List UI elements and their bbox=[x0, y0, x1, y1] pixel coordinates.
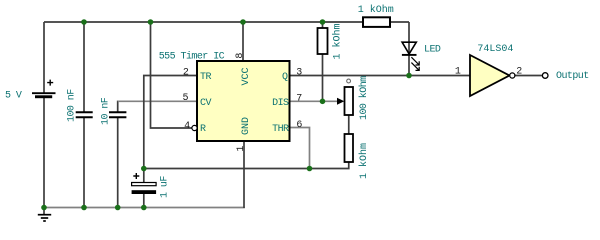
svg-text:100 kOhm: 100 kOhm bbox=[358, 76, 370, 120]
junction THR node bbox=[307, 166, 313, 172]
svg-text:VCC: VCC bbox=[241, 67, 252, 85]
svg-text:7: 7 bbox=[296, 93, 302, 104]
svg-text:TR: TR bbox=[200, 72, 211, 83]
junction bottom rail at C1 bbox=[81, 205, 87, 211]
junction DIS node at R1 bbox=[320, 99, 326, 105]
wire C1 bottom lead bbox=[83, 118, 85, 208]
capacitor C1 100 nF bbox=[76, 112, 93, 117]
wire CV pin 5 horizontal bbox=[118, 100, 197, 102]
svg-text:8: 8 bbox=[235, 53, 246, 59]
potentiometer RV1 100 kOhm bbox=[337, 79, 353, 115]
wire battery vertical top bbox=[43, 22, 45, 93]
svg-text:THR: THR bbox=[272, 124, 289, 135]
wire C3 top node to THR branch bbox=[144, 162, 349, 169]
wire RV1 bottom to R3 top bbox=[348, 115, 350, 134]
junction bottom rail at battery/ground bbox=[41, 205, 47, 211]
svg-text:2: 2 bbox=[183, 67, 189, 78]
svg-text:Q: Q bbox=[282, 72, 288, 83]
wire LED through lead bbox=[408, 22, 410, 76]
wire Q pin 3 to inverter input bbox=[290, 75, 471, 77]
IC U1 555 Timer body bbox=[197, 61, 290, 141]
node Output terminal bbox=[542, 73, 548, 79]
battery BT1 5 V bbox=[32, 80, 56, 99]
svg-text:6: 6 bbox=[296, 120, 302, 131]
svg-text:GND: GND bbox=[241, 117, 252, 135]
wire THR pin 6 down to RC node bbox=[290, 128, 310, 169]
capacitor C3 1 uF polarized bbox=[132, 173, 157, 194]
resistor R3 1 kOhm lower bbox=[345, 134, 354, 162]
svg-text:4: 4 bbox=[184, 121, 190, 132]
junction top rail at R pin riser bbox=[148, 19, 154, 25]
svg-text:10 nF: 10 nF bbox=[101, 97, 112, 125]
svg-text:LED: LED bbox=[424, 45, 441, 56]
svg-text:1 kOhm: 1 kOhm bbox=[358, 4, 394, 16]
wire 555 GND pin drop bbox=[243, 141, 245, 208]
junction Q wire at LED bbox=[406, 73, 412, 79]
svg-text:2: 2 bbox=[516, 66, 522, 77]
wire C1 top lead bbox=[83, 22, 85, 112]
svg-text:R: R bbox=[200, 124, 206, 135]
svg-text:DIS: DIS bbox=[272, 98, 289, 109]
wire C2 top lead bbox=[117, 101, 119, 112]
svg-text:5: 5 bbox=[183, 93, 189, 104]
wire R1 bottom lead to DIS wire bbox=[322, 54, 324, 101]
junction top rail at VCC bbox=[240, 19, 246, 25]
wire top rail from battery to horizontal resistor bbox=[44, 21, 363, 23]
wire C3 top lead bbox=[143, 169, 145, 183]
svg-text:1: 1 bbox=[236, 146, 247, 152]
wire TR pin 2 to C3 top node bbox=[144, 76, 197, 169]
junction bottom rail at C3 bbox=[141, 205, 147, 211]
inverter U2 74LS04 bbox=[470, 55, 515, 96]
svg-text:1 kOhm: 1 kOhm bbox=[332, 23, 344, 59]
junction top rail at R1 bbox=[320, 19, 326, 25]
wire R1 top lead to rail bbox=[322, 22, 324, 28]
svg-text:100 nF: 100 nF bbox=[67, 89, 78, 122]
resistor R2 1 kOhm horizontal bbox=[363, 17, 390, 27]
svg-text:1 uF: 1 uF bbox=[159, 176, 170, 198]
svg-text:CV: CV bbox=[200, 98, 211, 109]
junction bottom rail at C2 bbox=[115, 205, 121, 211]
svg-text:Output: Output bbox=[556, 71, 589, 82]
resistor R1 1 kOhm vertical bbox=[318, 28, 328, 54]
wire C3 bottom lead bbox=[143, 194, 145, 208]
svg-text:5 V: 5 V bbox=[5, 91, 22, 102]
LED D1 bbox=[402, 42, 420, 71]
wire inverter output to terminal bbox=[515, 75, 543, 77]
wire R pin 4 to top rail bbox=[151, 22, 193, 128]
wire battery vertical bottom bbox=[43, 98, 45, 208]
wire bottom rail bbox=[44, 207, 245, 209]
pin 4 inversion bubble on R bbox=[192, 125, 197, 130]
wire top rail from horizontal resistor to LED corner bbox=[390, 21, 409, 23]
ground bbox=[38, 208, 51, 222]
capacitor C2 10 nF bbox=[109, 112, 126, 117]
svg-text:74LS04: 74LS04 bbox=[477, 44, 513, 55]
svg-text:555 Timer IC: 555 Timer IC bbox=[159, 51, 225, 63]
wire C2 bottom lead bbox=[117, 118, 119, 208]
junction top rail at C1 bbox=[81, 19, 87, 25]
svg-text:1 kOhm: 1 kOhm bbox=[358, 143, 370, 179]
junction C3 top node bbox=[141, 166, 147, 172]
wire DIS pin 7 to potentiometer wiper bbox=[290, 100, 339, 102]
svg-text:3: 3 bbox=[296, 67, 302, 78]
svg-text:1: 1 bbox=[455, 67, 461, 78]
wire VCC pin 8 to top rail bbox=[242, 22, 244, 61]
